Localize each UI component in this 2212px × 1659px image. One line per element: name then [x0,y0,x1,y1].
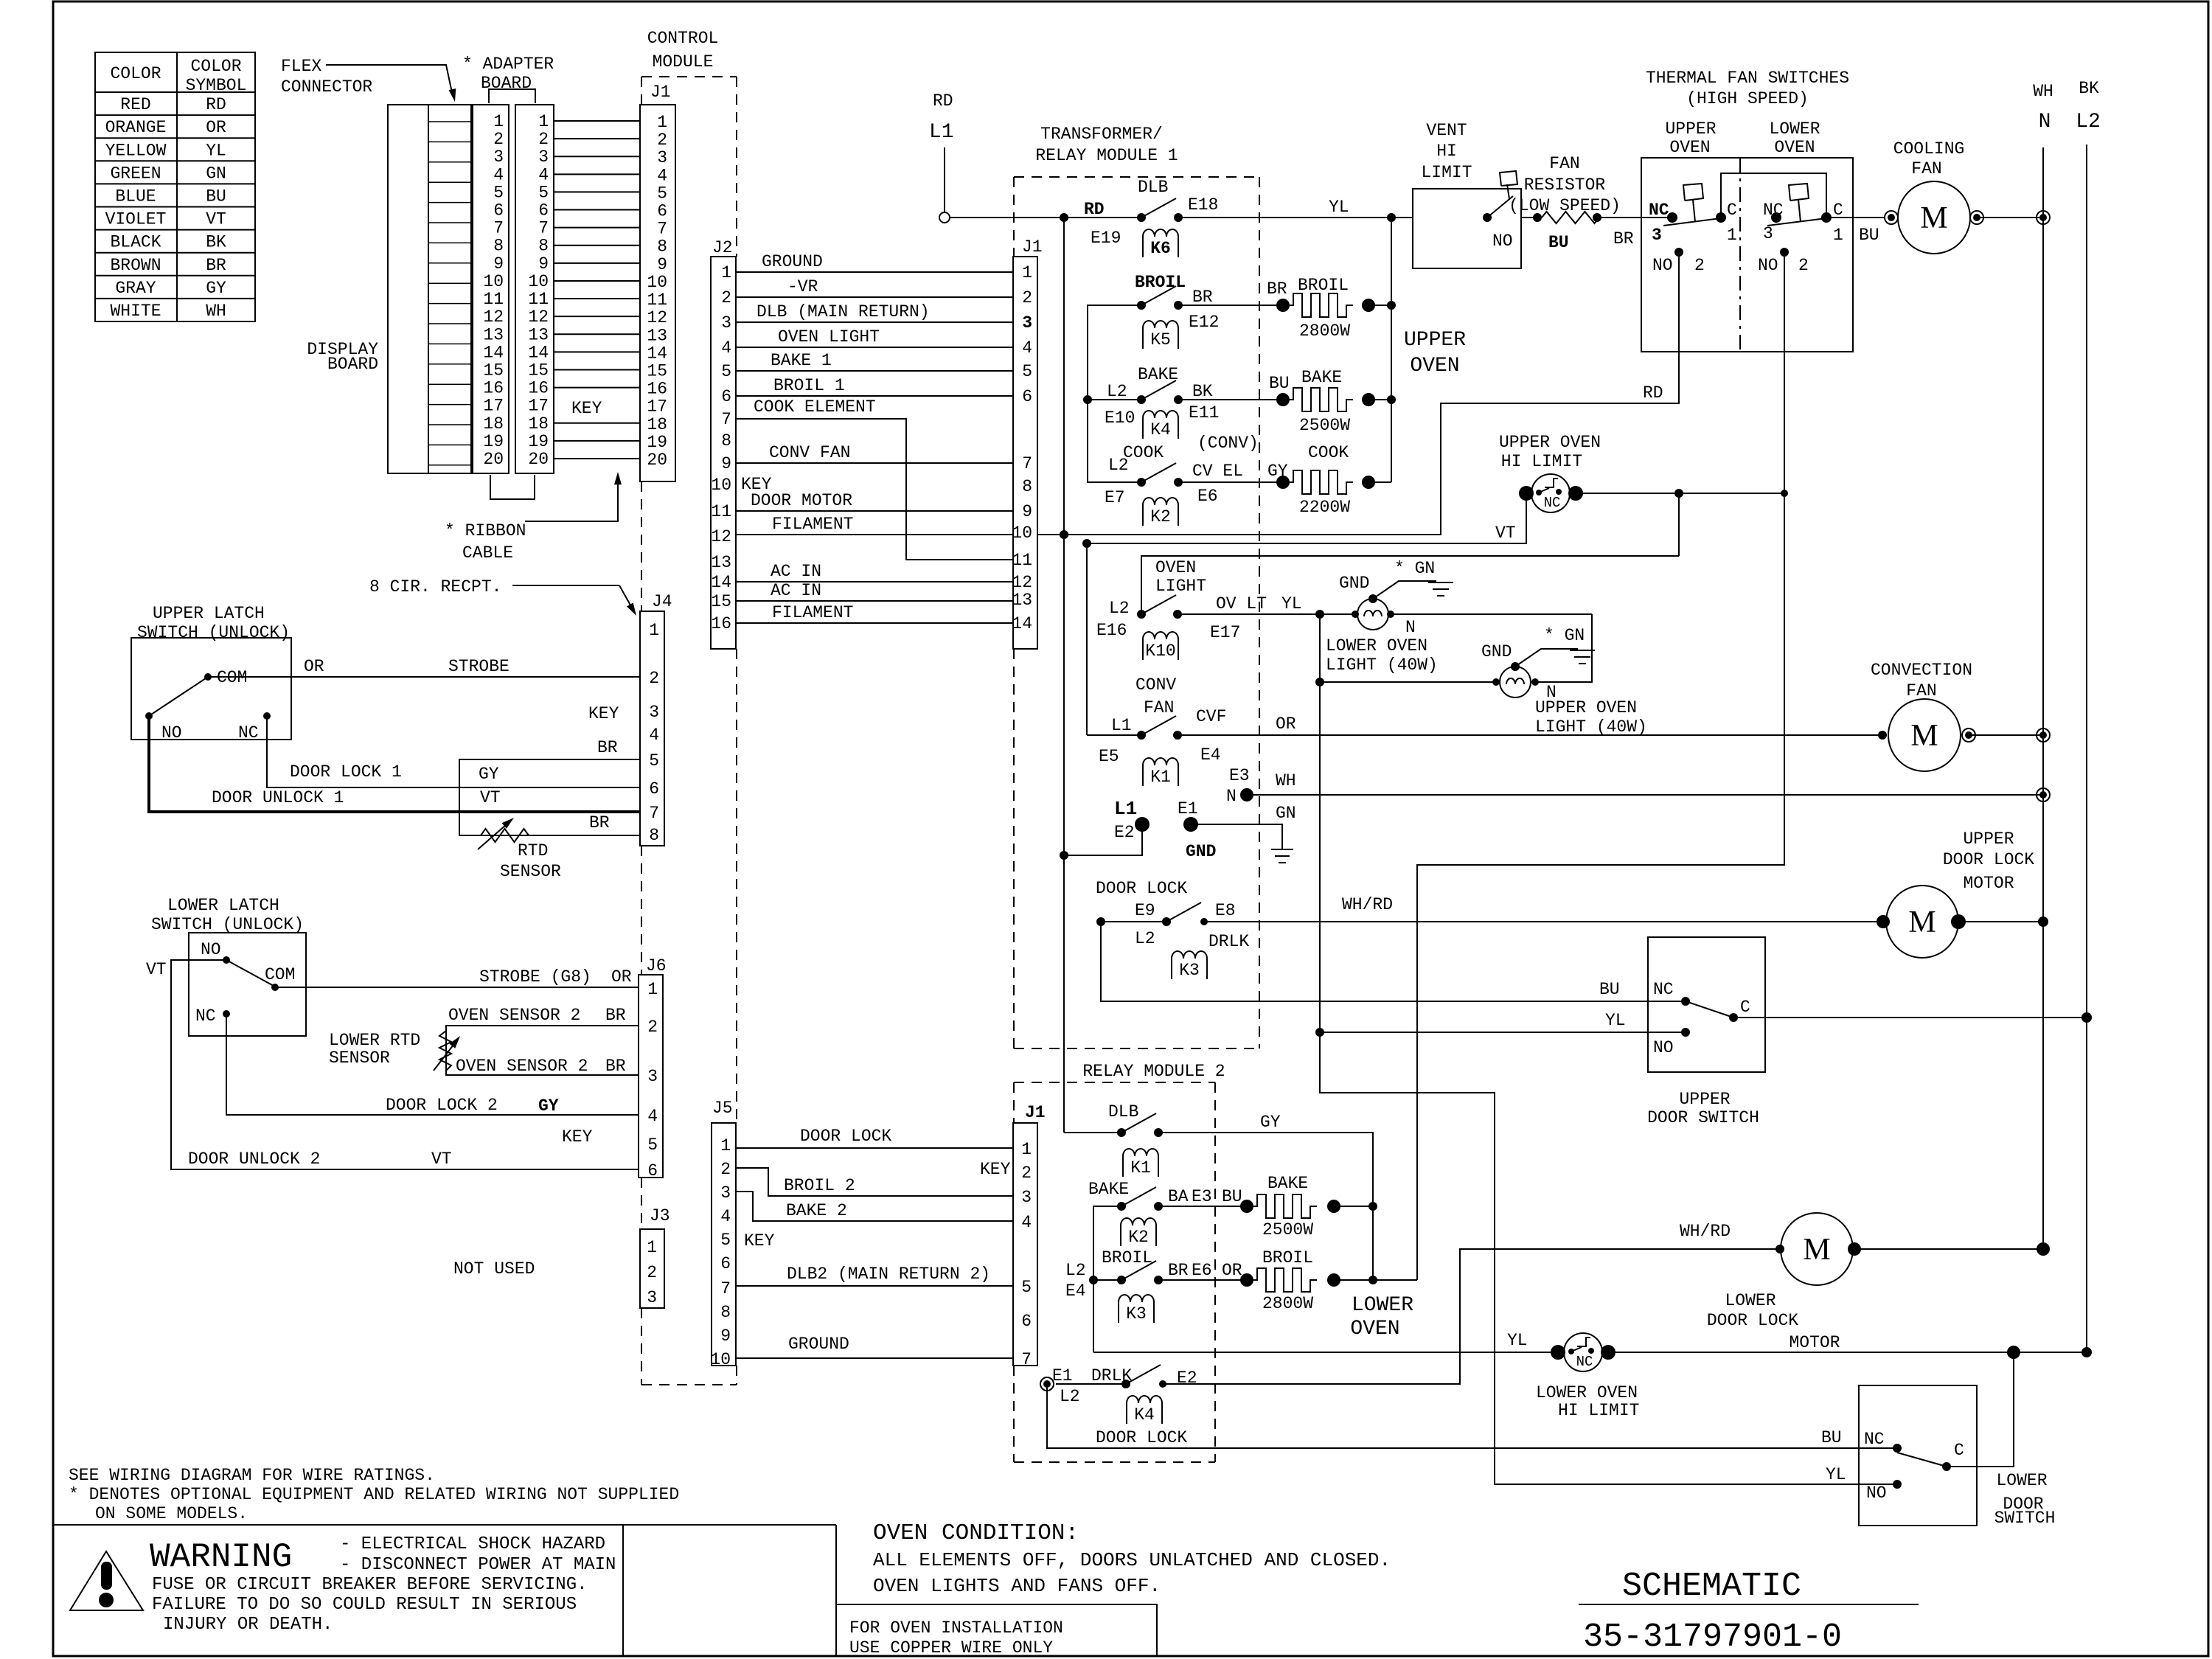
svg-text:DOOR LOCK 1: DOOR LOCK 1 [290,762,402,782]
svg-text:LIMIT: LIMIT [1421,163,1472,182]
svg-text:20: 20 [483,450,504,469]
svg-text:BR: BR [1613,229,1634,248]
wire DLB2 (MAIN RETURN 2) J5.7 to module2 J1.5 [736,1285,1013,1287]
svg-text:13: 13 [647,326,667,345]
svg-text:11: 11 [483,290,504,309]
svg-text:2: 2 [1798,256,1809,275]
svg-text:2500W: 2500W [1262,1220,1313,1239]
svg-text:J5: J5 [712,1099,733,1118]
svg-text:L2: L2 [2076,111,2101,133]
relay coil K3 [1172,951,1207,979]
svg-text:N: N [1226,787,1237,806]
svg-text:14: 14 [483,343,504,362]
svg-text:OR: OR [611,967,632,987]
svg-text:NC: NC [238,723,259,742]
svg-text:3: 3 [647,1288,657,1307]
adapter board top bracket [489,89,535,103]
svg-text:LOWER: LOWER [1996,1471,2047,1490]
svg-text:BROIL: BROIL [1102,1248,1152,1267]
svg-text:1: 1 [1727,226,1737,245]
svg-text:L2: L2 [1109,599,1130,618]
svg-text:K5: K5 [1150,330,1171,349]
wire lower light to x2159 jog [1391,613,1592,615]
svg-text:NO: NO [161,723,182,742]
svg-text:E2: E2 [1177,1368,1197,1388]
svg-text:SYMBOL: SYMBOL [186,76,247,95]
svg-text:CABLE: CABLE [462,543,513,563]
svg-text:NC: NC [1763,201,1784,220]
svg-text:E11: E11 [1189,403,1219,422]
right element bus upper oven [1391,218,1392,482]
svg-text:NO: NO [1653,1038,1674,1057]
left bus relay module 2 [1093,1206,1121,1352]
svg-text:J1: J1 [650,83,671,102]
lamp upper oven light 40W [1492,678,1500,686]
svg-text:OR: OR [1276,714,1296,734]
svg-text:3: 3 [721,313,731,333]
svg-text:RD: RD [206,95,226,114]
svg-text:L1: L1 [1111,716,1132,735]
svg-text:15: 15 [483,361,504,380]
svg-text:K10: K10 [1145,641,1175,661]
svg-text:13: 13 [1012,591,1032,610]
svg-text:BAKE: BAKE [1301,368,1342,387]
wire upper hi limit to thermal NO vertical [1576,493,1784,494]
svg-text:4: 4 [721,338,731,358]
svg-text:E18: E18 [1188,195,1218,215]
upper RTD sensor [481,829,529,842]
svg-text:GND: GND [1186,842,1216,861]
svg-text:KEY: KEY [744,1231,775,1251]
svg-text:8: 8 [649,826,659,845]
svg-text:2: 2 [493,130,504,149]
svg-text:SEE WIRING DIAGRAM FOR WIRE RA: SEE WIRING DIAGRAM FOR WIRE RATINGS. [69,1466,435,1485]
svg-text:C: C [1954,1441,1964,1460]
svg-text:14: 14 [647,344,667,363]
svg-text:19: 19 [528,432,549,451]
leader arrow to flex connector [326,65,453,96]
wire lower hi limit to L2 bus [1608,1352,2087,1353]
svg-text:J2: J2 [712,238,733,257]
svg-text:NC: NC [1544,495,1561,511]
svg-text:OVEN: OVEN [1350,1318,1399,1340]
svg-text:BROIL: BROIL [1262,1248,1313,1267]
svg-text:E3: E3 [1192,1187,1212,1206]
wire BAKE 1 J2.5 to J1.5 [736,370,1013,372]
svg-text:E3: E3 [1229,766,1250,785]
svg-text:WH: WH [206,302,226,321]
svg-text:L2: L2 [1108,456,1129,475]
wire BROIL switch to element [1178,305,1283,306]
svg-text:LOWER RTD: LOWER RTD [329,1031,420,1050]
svg-text:7: 7 [1022,454,1032,473]
svg-text:13: 13 [711,553,731,572]
wire YL lower oven hi limit feed [1093,1352,1558,1353]
relay coil K1 [1143,758,1178,786]
vertical from hi limit junction down [1678,493,1680,556]
svg-text:J3: J3 [650,1206,670,1225]
svg-text:BROIL 1: BROIL 1 [773,376,845,395]
svg-text:5: 5 [1021,1278,1032,1297]
svg-text:BAKE 2: BAKE 2 [786,1201,847,1220]
svg-text:J1: J1 [1022,237,1043,257]
svg-text:K3: K3 [1179,961,1200,980]
svg-text:4: 4 [1021,1213,1032,1232]
svg-text:8: 8 [720,1303,731,1322]
svg-text:2: 2 [1021,1164,1032,1183]
svg-text:K1: K1 [1150,768,1171,787]
wire BROIL element to bus lower oven [1334,1279,1373,1281]
ribbon wires adapter to J1 [554,120,640,122]
svg-text:* GN: * GN [1394,559,1435,578]
svg-text:YL: YL [1329,198,1349,217]
svg-text:VT: VT [480,788,501,807]
motor M lower door lock [1775,1245,1784,1253]
svg-text:WH/RD: WH/RD [1680,1222,1731,1241]
svg-text:2: 2 [1694,256,1705,275]
for oven installation box [836,1604,1157,1656]
wire GY DLB to element bus [1158,1133,1373,1206]
upper door switch box [1648,937,1765,1072]
flex connector ribbon [428,105,471,473]
svg-text:1: 1 [720,1136,731,1155]
svg-text:3: 3 [1022,313,1032,333]
svg-text:FOR OVEN INSTALLATION: FOR OVEN INSTALLATION [849,1618,1063,1638]
wire lower door switch C to hi limit row [1947,1352,2014,1467]
svg-text:4: 4 [720,1207,731,1226]
svg-text:DOOR LOCK: DOOR LOCK [1096,879,1187,898]
vent hi limit switch box [1413,189,1521,268]
wire fan resistor to thermal switches [1597,217,1672,218]
svg-text:WH/RD: WH/RD [1342,895,1393,914]
svg-text:5: 5 [657,184,667,203]
svg-text:DOOR LOCK: DOOR LOCK [1943,850,2034,869]
svg-text:6: 6 [1021,1312,1032,1331]
relay coil K10 [1143,632,1178,660]
svg-text:VT: VT [1495,524,1516,543]
svg-text:11: 11 [528,290,549,309]
upper latch switch box [131,638,291,740]
svg-text:AC IN: AC IN [771,581,821,600]
motor M cooling fan [1885,211,1898,224]
svg-text:YL: YL [1281,594,1302,613]
svg-text:6: 6 [720,1254,731,1273]
adapter board bottom bracket [490,475,535,499]
wire lower thermal NO down-jog to lower oven bus [1417,252,1784,1280]
svg-text:6: 6 [493,201,504,220]
svg-text:8: 8 [721,431,731,451]
svg-text:OVEN: OVEN [1155,558,1196,577]
wire upper door switch C to L2 bus [1733,1017,2087,1018]
svg-text:6: 6 [647,1161,658,1180]
svg-text:LIGHT (40W): LIGHT (40W) [1326,655,1438,675]
svg-text:COOLING: COOLING [1893,139,1965,159]
svg-text:BK: BK [2079,79,2099,98]
svg-text:2: 2 [721,288,731,307]
wire E2 to lower door lock motor [1163,1249,1780,1384]
svg-text:8 CIR. RECPT.: 8 CIR. RECPT. [369,577,501,597]
svg-text:2800W: 2800W [1299,321,1350,341]
svg-text:UPPER OVEN: UPPER OVEN [1535,698,1637,717]
svg-text:YL: YL [1605,1011,1626,1030]
svg-text:K2: K2 [1128,1228,1149,1247]
svg-text:RELAY MODULE 2: RELAY MODULE 2 [1082,1062,1225,1081]
svg-text:BR: BR [605,1006,626,1025]
wire jog to lower door switch NO [1320,1032,1897,1484]
wire convection fan to N bus [1969,734,2043,736]
svg-text:GY: GY [538,1096,559,1116]
svg-text:15: 15 [711,592,731,611]
svg-text:4: 4 [657,166,667,185]
svg-text:35-31797901-0: 35-31797901-0 [1583,1618,1842,1656]
wire E2 to RD bus [1064,824,1142,855]
relay coil K2 [1143,498,1178,526]
upper oven hi limit switch [1519,486,1534,501]
svg-text:STROBE: STROBE [448,657,509,676]
svg-text:1: 1 [721,263,731,282]
svg-text:CONNECTOR: CONNECTOR [281,77,372,97]
svg-text:FLEX: FLEX [281,57,321,76]
svg-text:2: 2 [657,131,667,150]
vertical oven light junction to YL row [1319,614,1321,1032]
svg-text:N: N [1405,618,1416,637]
svg-text:LOWER OVEN: LOWER OVEN [1326,636,1427,655]
svg-text:5: 5 [493,183,504,202]
svg-text:7: 7 [721,410,731,429]
svg-text:12: 12 [528,307,549,327]
lower oven light ground [1368,594,1377,603]
svg-text:FILAMENT: FILAMENT [772,603,853,622]
svg-text:11: 11 [711,502,731,521]
svg-text:SWITCH: SWITCH [1994,1509,2056,1528]
svg-text:7: 7 [1021,1350,1032,1369]
thermal fan switches box [1641,158,1853,352]
svg-text:7: 7 [649,804,659,823]
svg-text:(HIGH SPEED): (HIGH SPEED) [1686,89,1809,108]
svg-text:ORANGE: ORANGE [105,118,167,137]
svg-text:BAKE: BAKE [1267,1174,1308,1193]
svg-text:BU: BU [1269,374,1290,393]
svg-text:DOOR MOTOR: DOOR MOTOR [751,491,852,510]
svg-text:E17: E17 [1210,623,1240,642]
svg-text:DOOR LOCK 2: DOOR LOCK 2 [386,1096,498,1115]
wire DOOR MOTOR J2.11 to J1.9 [736,510,1013,512]
svg-text:1: 1 [1022,263,1032,282]
svg-text:WARNING: WARNING [150,1538,292,1576]
svg-text:5: 5 [720,1231,731,1250]
svg-text:13: 13 [528,325,549,344]
svg-text:FILAMENT: FILAMENT [772,515,853,534]
svg-text:C: C [1740,998,1750,1017]
svg-text:BA: BA [1168,1187,1189,1206]
wire DLB (MAIN RETURN) J2.3 to J1.3 [736,321,1013,323]
svg-text:UPPER: UPPER [1404,329,1466,352]
svg-text:* RIBBON: * RIBBON [445,521,526,540]
lower latch switch contacts and blade [223,956,230,964]
ground symbol relay module 1 [1271,849,1293,850]
svg-text:8: 8 [1022,477,1032,496]
svg-text:16: 16 [647,380,667,399]
svg-text:4: 4 [1022,338,1032,358]
wire DOOR LOCK E1 to lower door switch NC [1047,1384,1897,1448]
wire COOK element to bus [1368,481,1391,483]
wire L1 to RD node [950,217,1141,218]
svg-text:BLACK: BLACK [110,233,161,252]
relay coil K6 [1143,229,1178,257]
svg-text:2800W: 2800W [1262,1294,1313,1313]
relay coil K4 [1143,411,1178,439]
svg-text:VT: VT [431,1150,452,1169]
svg-text:17: 17 [647,397,667,417]
lower door switch box [1859,1385,1977,1526]
relay module 1 dashed outline [1014,176,1259,178]
svg-text:20: 20 [528,450,549,469]
upper oven light ground [1511,662,1520,671]
upper latch switch contacts and blade [204,673,212,681]
svg-text:GY: GY [1260,1113,1281,1132]
svg-text:3: 3 [1763,224,1773,243]
wire BROIL 1 J2.6 to J1.6 [736,395,1013,397]
wire YL to vent hi limit [1178,217,1413,218]
wire FILAMENT J2.12 to J1.10 [736,534,1013,535]
svg-text:9: 9 [657,255,667,274]
svg-text:UPPER LATCH: UPPER LATCH [153,604,265,623]
wire GROUND J5.10 to module2 J1.7 [736,1357,1013,1359]
svg-text:OR: OR [1222,1261,1242,1280]
svg-text:LOWER: LOWER [1725,1291,1775,1310]
svg-text:OR: OR [304,657,324,676]
svg-text:BAKE: BAKE [1138,365,1178,384]
svg-text:OVEN: OVEN [1774,138,1815,157]
svg-text:NC: NC [1576,1354,1593,1370]
svg-text:LOWER LATCH: LOWER LATCH [167,896,279,915]
svg-text:YL: YL [206,141,226,160]
wire BAKE 2 J5.3 to module2 J1.4 [736,1192,1013,1221]
svg-text:BK: BK [206,233,226,252]
svg-text:GREEN: GREEN [110,164,161,183]
svg-text:5: 5 [1022,362,1032,381]
svg-text:SCHEMATIC: SCHEMATIC [1622,1568,1801,1605]
wire BAKE switch to element [1178,399,1283,400]
svg-text:UPPER: UPPER [1963,829,2014,849]
svg-text:BROIL: BROIL [1298,276,1349,295]
wire BROIL switch to element module 2 [1158,1279,1247,1281]
svg-text:L2: L2 [1107,382,1127,401]
svg-text:7: 7 [538,219,549,238]
svg-text:USE COPPER WIRE ONLY: USE COPPER WIRE ONLY [849,1638,1053,1658]
svg-text:1: 1 [538,112,549,131]
svg-text:L1: L1 [929,121,954,144]
svg-text:BU: BU [206,187,226,206]
svg-text:19: 19 [483,432,504,451]
wire upper light row [1320,681,1496,683]
svg-text:15: 15 [647,361,667,380]
heater element BAKE 2500W lower oven [1240,1200,1253,1213]
svg-text:MODULE: MODULE [653,52,714,72]
svg-text:6: 6 [649,779,659,799]
svg-text:2: 2 [1022,288,1032,307]
node WH wire to N bus [2037,788,2050,801]
wire FILAMENT J2.16 to J1.14 [736,622,1013,624]
svg-text:1: 1 [1833,226,1843,245]
svg-text:2: 2 [720,1160,731,1179]
svg-text:J4: J4 [652,592,672,611]
svg-text:* DENOTES OPTIONAL EQUIPMENT: * DENOTES OPTIONAL EQUIPMENT AND RELATED… [69,1485,679,1504]
svg-text:E7: E7 [1105,488,1125,507]
svg-text:OR: OR [206,118,226,137]
svg-text:10: 10 [710,1350,731,1369]
svg-text:3: 3 [493,147,504,167]
bus N vertical [2042,147,2044,1249]
svg-text:DOOR LOCK: DOOR LOCK [800,1127,891,1146]
svg-text:KEY: KEY [980,1160,1011,1179]
wire lower thermal C to cooling fan [1826,217,1885,218]
svg-text:DOOR SWITCH: DOOR SWITCH [1647,1108,1759,1127]
color code table [95,52,255,321]
vent hi limit switch [1483,213,1492,222]
adapter board column 1 [473,105,509,473]
upper oven thermal switch [1667,212,1677,223]
svg-text:DLB: DLB [1108,1102,1138,1121]
svg-text:15: 15 [528,361,549,380]
svg-text:9: 9 [538,254,549,274]
svg-text:GND: GND [1481,642,1512,661]
svg-text:RTD: RTD [518,841,548,860]
wire E8 to upper door lock motor [1204,921,1883,922]
svg-text:VT: VT [206,210,226,229]
svg-text:6: 6 [1022,387,1032,406]
adapter board column 2 [515,105,554,473]
node YL-element bus junction [1387,213,1396,222]
node VT junction [1082,539,1091,548]
svg-text:BROIL 2: BROIL 2 [784,1176,855,1195]
svg-text:LOWER: LOWER [1769,119,1820,139]
svg-text:HI: HI [1436,142,1457,161]
svg-text:NO: NO [1758,256,1778,275]
svg-text:MOTOR: MOTOR [1963,874,2014,893]
svg-text:J6: J6 [646,956,667,975]
svg-text:INJURY OR DEATH.: INJURY OR DEATH. [163,1615,333,1635]
svg-text:FAN: FAN [1911,159,1941,178]
svg-text:5: 5 [647,1135,658,1155]
relay coil K1 module 2 [1123,1149,1158,1177]
relay coil K2 module 2 [1121,1218,1156,1246]
svg-text:NC: NC [1864,1430,1885,1449]
svg-text:VT: VT [146,960,167,979]
svg-text:3: 3 [1652,226,1662,245]
wire DOOR UNLOCK 1 upper latch NO to J4.7 [149,716,640,812]
svg-text:1: 1 [649,621,659,640]
svg-text:E1: E1 [1178,799,1198,818]
wire COOK switch to element [1178,481,1283,483]
heater element BAKE 2500W upper oven [1276,393,1290,406]
svg-text:E4: E4 [1200,745,1221,765]
svg-text:6: 6 [657,202,667,221]
svg-text:VIOLET: VIOLET [105,210,167,229]
svg-text:K1: K1 [1130,1158,1151,1178]
relay module 2 dashed outline [1014,1082,1215,1083]
motor M convection fan [1878,731,1887,740]
svg-text:18: 18 [647,415,667,434]
bus L2 vertical [2086,145,2087,1352]
wire GROUND J2.1 to J1.1 [736,271,1013,273]
svg-text:12: 12 [1012,573,1032,592]
svg-text:4: 4 [647,1107,658,1126]
svg-text:UPPER: UPPER [1679,1090,1730,1109]
svg-text:E5: E5 [1099,747,1119,766]
svg-text:BR: BR [597,738,618,757]
svg-text:DOOR LOCK: DOOR LOCK [1096,1428,1187,1447]
